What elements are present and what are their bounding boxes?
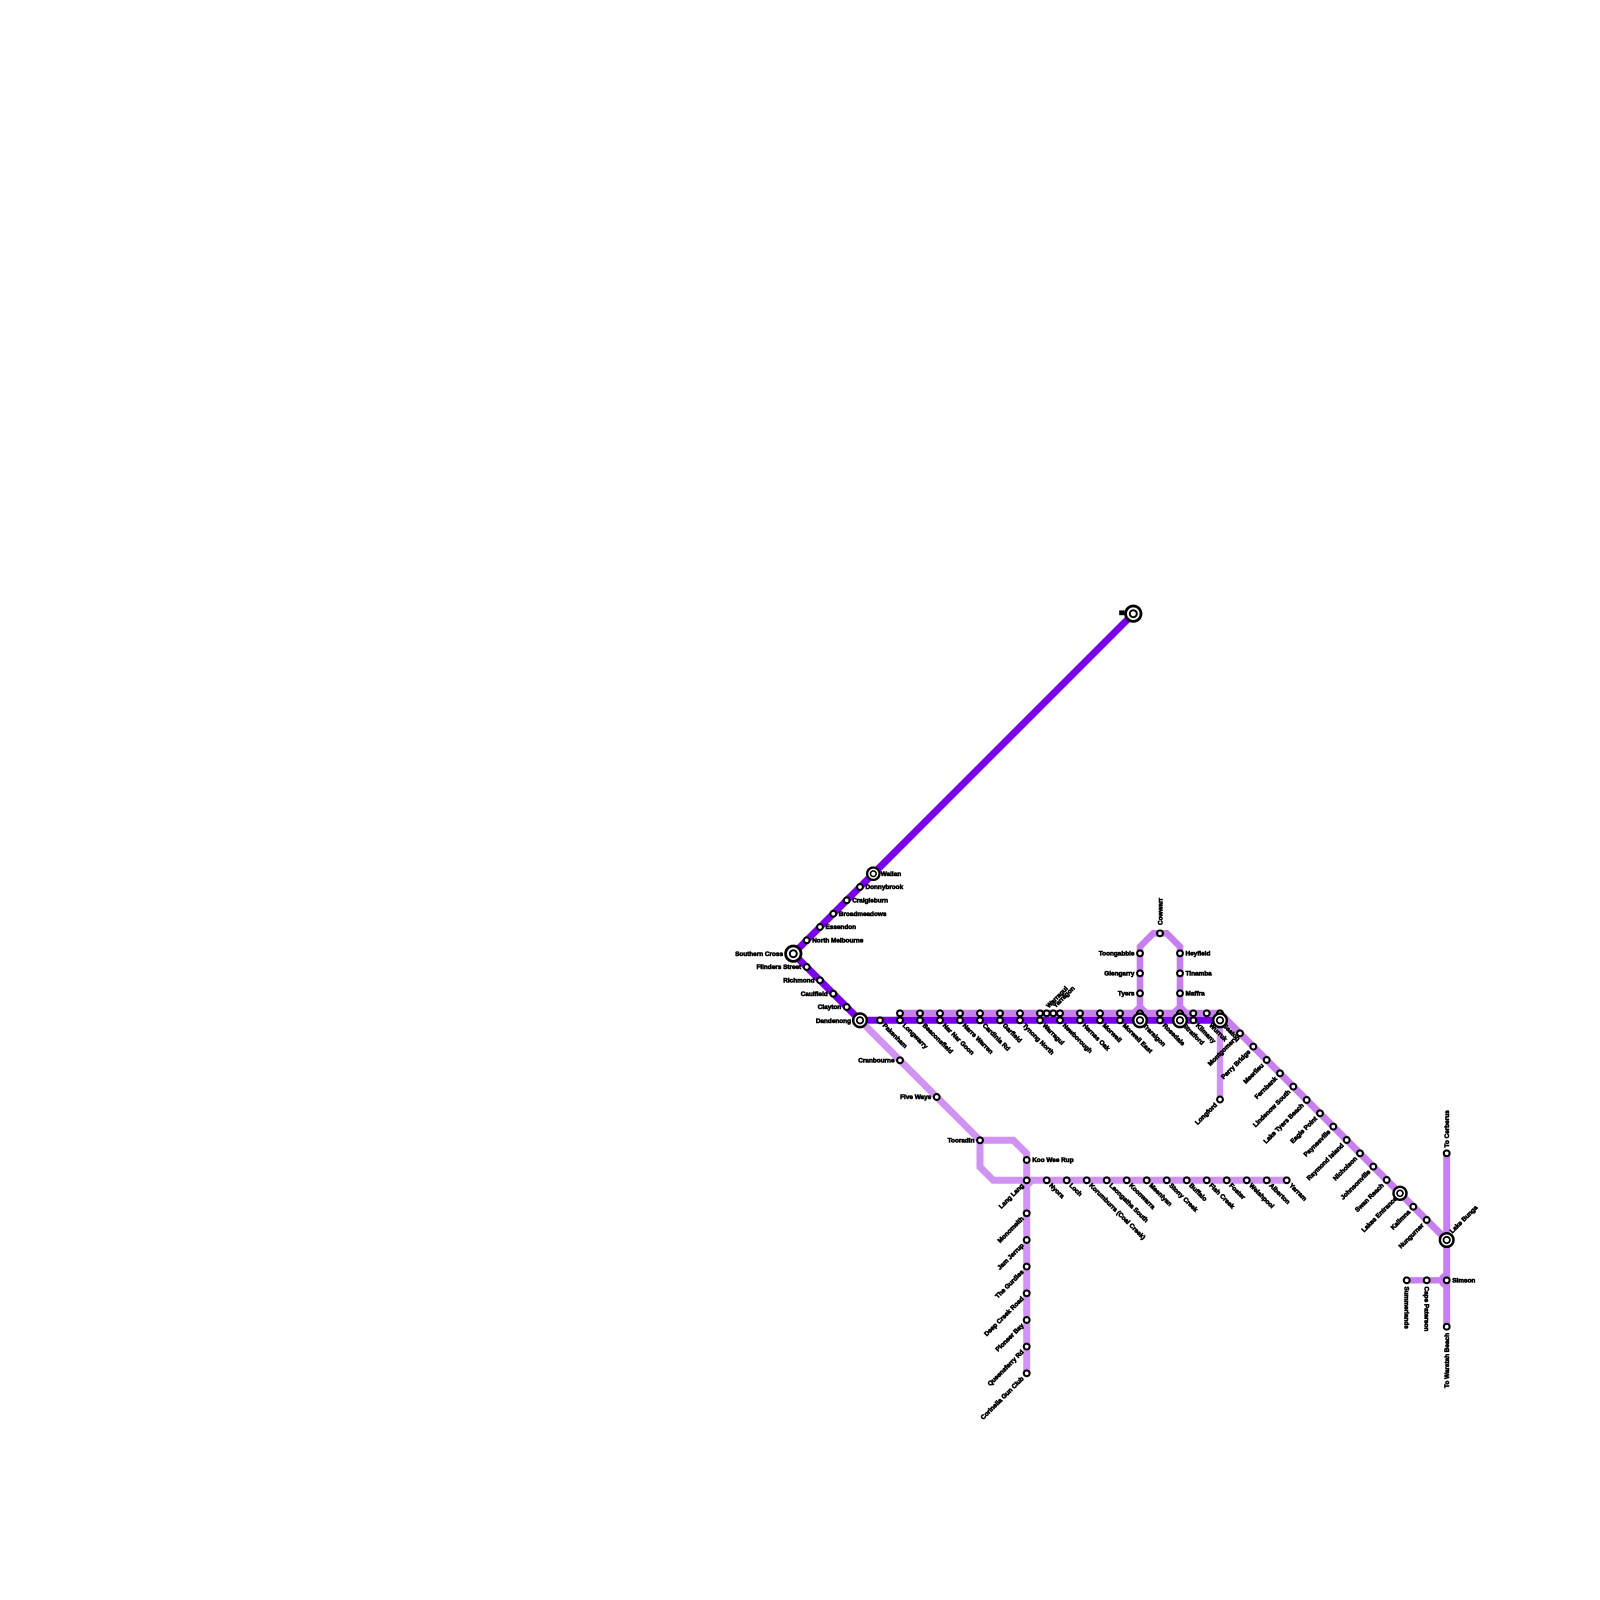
- interchange Stratford: [1173, 1014, 1187, 1028]
- station Five Ways: [934, 1094, 940, 1100]
- svg-text:Broadmeadows: Broadmeadows: [839, 911, 887, 918]
- svg-text:To Cerberus: To Cerberus: [1444, 1110, 1451, 1148]
- station Yarram: [1284, 1177, 1290, 1183]
- station Cape Paterson: [1424, 1277, 1430, 1283]
- station Raymond Island: [1344, 1137, 1350, 1143]
- station Loch: [1064, 1177, 1070, 1183]
- line: Seymour dark main line (terminus to Southern Cross to Dandenong to Sale): [793, 614, 1220, 1021]
- svg-text:Meerlieu: Meerlieu: [1242, 1062, 1265, 1085]
- svg-text:Essendon: Essendon: [826, 924, 857, 931]
- station Korumburra (Coal Creek): [1084, 1177, 1090, 1183]
- interchange Wallan: [867, 868, 879, 880]
- station Summerlands: [1404, 1277, 1410, 1283]
- svg-text:Southern Cross: Southern Cross: [735, 951, 783, 958]
- station Cowwarr (loop apex): [1157, 930, 1163, 936]
- station Yarragon (light only): [1050, 1010, 1056, 1016]
- wire: T-branch fillet lower: [1441, 1280, 1447, 1286]
- station Heyfield: [1177, 950, 1183, 956]
- svg-text:Caulfield: Caulfield: [801, 991, 828, 998]
- station Flinders Street: [804, 964, 810, 970]
- station Monomeith: [1024, 1210, 1030, 1216]
- interchange Dandenong: [853, 1014, 867, 1028]
- svg-text:Clayton: Clayton: [818, 1004, 842, 1011]
- station Paynesville: [1330, 1124, 1336, 1130]
- station Tooradin: [977, 1137, 983, 1143]
- svg-text:Cranbourne: Cranbourne: [858, 1058, 895, 1065]
- station The Gurdies: [1024, 1264, 1030, 1270]
- station Lake Tyers Beach: [1304, 1097, 1310, 1103]
- svg-text:Cape Paterson: Cape Paterson: [1422, 1287, 1429, 1332]
- station Kilmany: [1190, 1010, 1196, 1016]
- line: Koo Wee Rup octagon loop: [980, 1140, 1027, 1180]
- wire: loop right foot fillet: [1173, 1006, 1188, 1013]
- svg-text:Tooradin: Tooradin: [948, 1138, 975, 1145]
- station Meeniyan: [1144, 1177, 1150, 1183]
- svg-text:Lang Lang: Lang Lang: [998, 1183, 1026, 1211]
- svg-text:Dandenong: Dandenong: [816, 1018, 851, 1025]
- station Morwell: [1097, 1010, 1103, 1016]
- station Nar Nar Goon: [937, 1010, 943, 1016]
- svg-text:Kalimna: Kalimna: [1390, 1209, 1413, 1232]
- station Pakenham: [877, 1017, 883, 1023]
- station Clayton: [844, 1004, 850, 1010]
- station Cranbourne: [897, 1057, 903, 1063]
- svg-text:Nungurner: Nungurner: [1398, 1222, 1426, 1250]
- station Nungurner: [1424, 1217, 1430, 1223]
- station Tyers: [1137, 990, 1143, 996]
- svg-text:Toongabbie: Toongabbie: [1099, 951, 1135, 958]
- svg-text:Glengarry: Glengarry: [1104, 971, 1135, 978]
- station Alberton: [1264, 1177, 1270, 1183]
- svg-text:Richmond: Richmond: [783, 978, 814, 985]
- station Buffalo: [1184, 1177, 1190, 1183]
- wire: junction fillet SE: [1027, 1180, 1034, 1187]
- svg-text:Nicholson: Nicholson: [1332, 1155, 1359, 1182]
- station Fernbank: [1277, 1070, 1283, 1076]
- svg-text:Cowwarr: Cowwarr: [1158, 897, 1165, 925]
- station Wurruk (light only): [1204, 1010, 1210, 1016]
- svg-text:Tinamba: Tinamba: [1186, 971, 1213, 978]
- station Toongabbie: [1137, 950, 1143, 956]
- svg-text:Simson: Simson: [1452, 1278, 1475, 1285]
- svg-text:Flinders Street: Flinders Street: [756, 964, 802, 971]
- station Hernes Oak: [1077, 1010, 1083, 1016]
- line: east South Gippsland line to Yarram: [1027, 1177, 1287, 1184]
- svg-text:Koo Wee Rup: Koo Wee Rup: [1032, 1157, 1074, 1164]
- svg-text:Maffra: Maffra: [1186, 991, 1206, 998]
- station Koo Wee Rup: [1024, 1157, 1030, 1163]
- station Montgomery: [1237, 1030, 1243, 1036]
- station Nyora: [1044, 1177, 1050, 1183]
- station Garfield: [997, 1010, 1003, 1016]
- svg-text:North Melbourne: North Melbourne: [812, 938, 864, 945]
- station Warragul (light only): [1044, 1010, 1050, 1016]
- station Deep Creek Road: [1024, 1290, 1030, 1296]
- station Tynong North: [1017, 1010, 1023, 1016]
- node light dot behind Traralgon interchange: [1137, 1010, 1143, 1016]
- svg-text:The Gurdies: The Gurdies: [994, 1269, 1026, 1301]
- svg-text:Loch: Loch: [1067, 1182, 1083, 1198]
- svg-text:Summerlands: Summerlands: [1402, 1287, 1409, 1330]
- station Broadmeadows: [830, 911, 836, 917]
- station Meerlieu: [1264, 1057, 1270, 1063]
- station Tinamba: [1177, 970, 1183, 976]
- station To Cerberus (top arrow): [1444, 1150, 1450, 1156]
- station Longwarry: [897, 1010, 903, 1016]
- station Lang Lang (junction): [1024, 1177, 1030, 1183]
- station Foster: [1224, 1177, 1230, 1183]
- station Koonwarra: [1124, 1177, 1130, 1183]
- interchange Seymour terminus: [1126, 606, 1141, 621]
- wire: loop left foot fillet: [1133, 1006, 1148, 1013]
- interchange Cape Woolamai: [1440, 1233, 1454, 1247]
- svg-text:Heyfield: Heyfield: [1186, 951, 1211, 958]
- svg-text:Jam Jerrup: Jam Jerrup: [996, 1242, 1025, 1271]
- station Nicholson: [1357, 1150, 1363, 1156]
- station Beaconsfield: [917, 1010, 923, 1016]
- node light dot behind Sale interchange: [1217, 1010, 1223, 1016]
- interchange Sale: [1213, 1014, 1227, 1028]
- station Newborough: [1057, 1010, 1063, 1016]
- station Kalimna: [1410, 1204, 1416, 1210]
- node light dot behind Stratford interchange: [1177, 1010, 1183, 1016]
- station Donnybrook: [857, 884, 863, 890]
- station To Waratah Beach (bottom): [1444, 1324, 1450, 1330]
- station Maffra: [1177, 990, 1183, 996]
- interchange Southern Cross: [786, 946, 801, 961]
- line: Cranbourne pale branch from Dandenong: [860, 1020, 980, 1140]
- station Eagle Point: [1317, 1110, 1323, 1116]
- svg-text:Wallan: Wallan: [881, 871, 901, 878]
- wire: T-branch fillet upper: [1441, 1275, 1447, 1281]
- station Glengarry: [1137, 970, 1143, 976]
- station Caulfield: [830, 991, 836, 997]
- station Corinella Gun Club: [1024, 1370, 1030, 1376]
- interchange Lakes Entrance: [1394, 1187, 1407, 1200]
- station Longford (below Sale): [1217, 1097, 1223, 1103]
- line: south Western Port vertical line: [1023, 1180, 1030, 1373]
- wire: junction fillet SW: [1020, 1180, 1026, 1187]
- svg-text:To Waratah Beach: To Waratah Beach: [1444, 1333, 1451, 1388]
- station Perry Bridge: [1250, 1044, 1256, 1050]
- station Warragul: [1037, 1010, 1043, 1016]
- station Lindenow South: [1290, 1084, 1296, 1090]
- svg-text:Craigieburn: Craigieburn: [852, 898, 888, 905]
- station Welshpool: [1244, 1177, 1250, 1183]
- station Essendon: [817, 924, 823, 930]
- svg-text:Longford: Longford: [1194, 1102, 1219, 1127]
- station Pioneer Bay: [1024, 1317, 1030, 1323]
- station Johnsonville: [1370, 1164, 1376, 1170]
- station Craigieburn: [844, 897, 850, 903]
- station Simson (T junction): [1444, 1277, 1450, 1283]
- svg-text:Monomeith: Monomeith: [997, 1216, 1026, 1245]
- station Swan Reach: [1384, 1177, 1390, 1183]
- line: short vertical below Sale interchange: [1217, 1016, 1223, 1100]
- svg-text:Five Ways: Five Ways: [900, 1094, 931, 1101]
- interchange Traralgon: [1133, 1014, 1147, 1028]
- station Morwell East: [1117, 1010, 1123, 1016]
- station Rosedale: [1157, 1010, 1163, 1016]
- svg-text:Nyora: Nyora: [1047, 1182, 1065, 1200]
- svg-text:Fernbank: Fernbank: [1254, 1075, 1280, 1101]
- svg-text:Foster: Foster: [1227, 1182, 1246, 1201]
- station Narre Warren: [957, 1010, 963, 1016]
- station Leongatha South: [1104, 1177, 1110, 1183]
- station North Melbourne: [804, 937, 810, 943]
- svg-text:Tyers: Tyers: [1118, 991, 1135, 998]
- line: T-branch west from coastal vertical: [1407, 1277, 1447, 1283]
- station Jam Jerrup: [1024, 1237, 1030, 1243]
- station Fish Creek: [1204, 1177, 1210, 1183]
- svg-text:Lake Bunga: Lake Bunga: [1449, 1204, 1480, 1235]
- station Richmond: [817, 977, 823, 983]
- station Cardinia Rd: [977, 1010, 983, 1016]
- svg-text:Donnybrook: Donnybrook: [866, 884, 904, 891]
- line: light stopping service parallel line Pakenham to Sale then SE diagonal to Lakes interchange: [897, 1013, 1447, 1240]
- station Queensferry Rd: [1024, 1344, 1030, 1350]
- line: right coastal vertical line: [1443, 1153, 1450, 1326]
- station Stony Creek: [1164, 1177, 1170, 1183]
- line: Maffra balloon loop: [1140, 933, 1180, 1013]
